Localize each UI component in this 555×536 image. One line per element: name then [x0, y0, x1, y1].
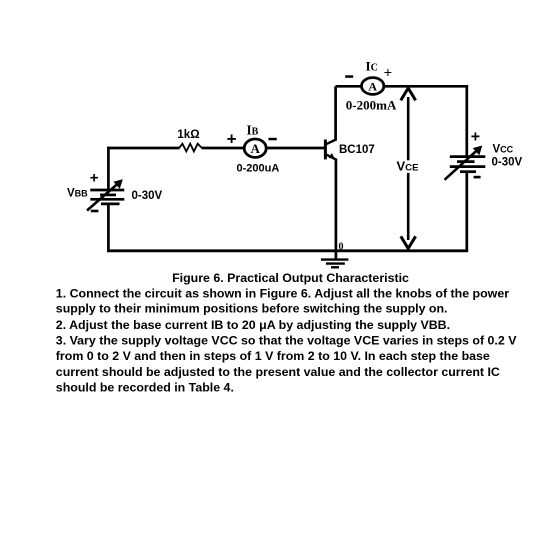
svg-text:supply to their minimum positi: supply to their minimum positions before… [56, 301, 448, 315]
transistor Q1 BC107 base bar [324, 140, 327, 160]
svg-text:current should be adjusted to: current should be adjusted to the presen… [56, 365, 500, 379]
VCE measurement arrow (double-headed) [407, 97, 410, 160]
wire: right rail lower (VCC battery to bottom rail) [465, 172, 468, 252]
wire: resistor to ammeter IB [202, 147, 244, 150]
label - (VBB) [91, 210, 99, 213]
svg-text:1kΩ: 1kΩ [177, 128, 199, 141]
svg-text:A: A [251, 141, 261, 156]
wire: top rail right segment (IC meter to VCC) [384, 85, 468, 88]
wire: right rail upper (top rail to VCC battery) [465, 85, 468, 157]
transistor collector diagonal [326, 140, 336, 145]
wire: top rail left segment (collector to IC meter) [336, 85, 362, 88]
resistor R 1k [179, 144, 202, 152]
svg-text:should be recorded in Table 4.: should be recorded in Table 4. [56, 381, 234, 395]
transistor emitter arrowhead [329, 153, 335, 159]
svg-text:0-30V: 0-30V [492, 156, 523, 168]
label - (VCC) [474, 176, 481, 179]
svg-text:+: + [227, 130, 237, 149]
svg-text:VBB: VBB [67, 188, 88, 200]
VCC variability arrow [445, 149, 479, 180]
svg-text:VCC: VCC [493, 144, 514, 156]
wire: bottom rail [107, 249, 468, 252]
svg-text:0-200uA: 0-200uA [237, 163, 280, 175]
label - (IC meter) [345, 75, 353, 78]
svg-text:+: + [384, 66, 393, 82]
svg-text:+: + [90, 170, 99, 187]
svg-text:3. Vary the supply voltage VCC: 3. Vary the supply voltage VCC so that t… [56, 334, 517, 348]
wire: emitter vertical down to ground [335, 159, 338, 260]
svg-text:BC107: BC107 [339, 144, 375, 156]
wire: collector vertical to top rail [334, 86, 337, 140]
svg-text:0-200mA: 0-200mA [346, 98, 397, 113]
ammeter A1 (IB) [244, 139, 266, 157]
svg-text:A: A [368, 79, 377, 93]
VBB variability arrow [87, 183, 119, 211]
battery VBB variable source plates [90, 189, 124, 192]
transistor emitter diagonal [326, 154, 336, 159]
ground symbol [321, 258, 349, 260]
svg-text:Figure 6. Practical Output Cha: Figure 6. Practical Output Characteristi… [172, 271, 409, 285]
wire: left rail upper (top to VBB battery) [107, 147, 110, 190]
svg-text:from 0 to 2 V and then in step: from 0 to 2 V and then in steps of 1 V f… [56, 349, 490, 363]
svg-text:1. Connect the circuit as show: 1. Connect the circuit as shown in Figur… [56, 286, 509, 300]
wire: left loop top (VBB to resistor) [107, 147, 180, 150]
wire: left rail lower (VBB battery to bottom rail) [107, 204, 110, 252]
svg-text:2. Adjust the base current IB: 2. Adjust the base current IB to 20 μA b… [56, 318, 450, 332]
ammeter A2 (IC) [362, 78, 384, 95]
svg-text:0: 0 [339, 241, 344, 252]
wire: ammeter IB to base [267, 147, 325, 150]
svg-text:+: + [471, 128, 480, 145]
label - (IB meter) [268, 138, 276, 141]
battery VCC variable source plates [450, 155, 486, 158]
svg-text:0-30V: 0-30V [132, 190, 163, 202]
